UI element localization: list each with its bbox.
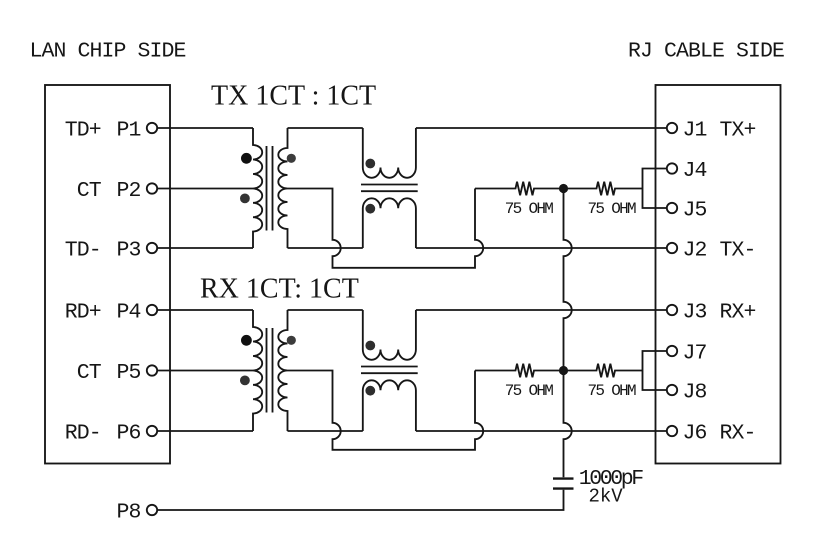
transformer T1 polarity dot secondary: [287, 154, 296, 163]
choke L2 top winding: [363, 310, 416, 360]
svg-text:TD-: TD-: [65, 238, 101, 262]
svg-text:CT: CT: [77, 179, 102, 203]
pin P6 (RD-): [65, 421, 157, 445]
wire choke L1 to J1: [416, 127, 667, 129]
svg-text:TD+: TD+: [65, 118, 101, 142]
svg-text:J3: J3: [683, 300, 707, 324]
svg-text:RD-: RD-: [65, 421, 101, 445]
wire T1 secondary bottom to choke L1: [288, 247, 363, 249]
svg-text:P8: P8: [116, 500, 140, 524]
transformer T1 secondary winding: [278, 128, 287, 248]
wire P1 to T1 primary: [157, 127, 253, 129]
svg-text:J4: J4: [683, 159, 707, 183]
resistor R2 label 75 OHM: [587, 200, 636, 218]
resistor R4 label 75 OHM: [587, 382, 636, 400]
pin J1 (TX+): [667, 118, 756, 142]
svg-text:P3: P3: [116, 238, 140, 262]
wire P4 to T2 primary: [157, 309, 253, 311]
transformer T1 core: [267, 146, 273, 231]
transformer T1 primary winding: [253, 128, 262, 248]
choke L2 core: [361, 367, 418, 374]
pin P3 (TD-): [65, 238, 157, 262]
pin P2 (CT): [77, 179, 157, 203]
resistor R3 label 75 OHM: [505, 382, 554, 400]
pin P1 (TD+): [65, 118, 157, 142]
pin P5 (CT): [77, 361, 157, 385]
wire bracket to J7/J8: [643, 351, 667, 390]
capacitor C1 plates: [553, 479, 574, 489]
svg-text:J1: J1: [683, 118, 707, 142]
wire T1 secondary top to choke L1: [288, 127, 363, 129]
choke L1 bottom winding: [363, 198, 416, 248]
svg-text:J7: J7: [683, 341, 707, 365]
wire P5 center tap to T2 primary: [157, 370, 253, 372]
pin J8: [667, 380, 707, 404]
transformer T2 primary winding: [253, 310, 262, 431]
pin J2 (TX-): [667, 238, 756, 262]
wire P3 to T1 primary: [157, 247, 253, 249]
capacitor C1 label 2kV: [589, 486, 624, 508]
wire choke L2 to J6: [416, 430, 667, 432]
choke L2 polarity dot top: [365, 341, 375, 351]
title RJ CABLE SIDE: [628, 39, 784, 63]
wire junction vertical to capacitor: [564, 189, 572, 478]
choke L1 polarity dot bottom: [365, 204, 375, 214]
svg-text:P4: P4: [116, 300, 140, 324]
label RX 1CT: 1CT: [200, 274, 359, 305]
svg-text:RD+: RD+: [65, 300, 101, 324]
svg-text:75 OHM: 75 OHM: [505, 382, 554, 400]
svg-text:75 OHM: 75 OHM: [587, 200, 636, 218]
transformer T2 secondary winding: [278, 310, 287, 431]
pin P4 (RD+): [65, 300, 157, 324]
wire T2 secondary top to choke L2: [288, 309, 363, 311]
choke L2 bottom winding: [363, 380, 416, 431]
transformer T2 polarity dot secondary: [287, 336, 296, 345]
wire choke L2 to J3: [416, 309, 667, 311]
transformer T1 polarity dot primary bottom: [240, 194, 250, 204]
transformer T1 polarity dot primary top: [241, 153, 252, 164]
svg-text:RJ CABLE SIDE: RJ CABLE SIDE: [628, 39, 784, 63]
pin P8: [116, 500, 157, 524]
pin J3 (RX+): [667, 300, 756, 324]
svg-text:J2: J2: [683, 238, 707, 262]
transformer T2 polarity dot primary bottom: [240, 376, 250, 386]
wire T1 secondary center tap return: [288, 189, 484, 268]
svg-text:TX-: TX-: [720, 238, 756, 262]
choke L1 top winding: [363, 128, 416, 178]
svg-text:J8: J8: [683, 380, 707, 404]
svg-text:LAN CHIP SIDE: LAN CHIP SIDE: [30, 39, 186, 63]
capacitor C1 label 1000pF: [579, 467, 644, 491]
choke L1 core: [361, 185, 418, 192]
resistor R4 75 OHM: [564, 364, 643, 378]
svg-text:2kV: 2kV: [589, 486, 624, 508]
transformer T2 core: [267, 328, 273, 413]
svg-text:75 OHM: 75 OHM: [505, 200, 554, 218]
pin J5: [667, 198, 707, 222]
svg-text:P5: P5: [116, 361, 140, 385]
wire choke L1 to J2: [416, 247, 667, 249]
wire T2 secondary bottom to choke L2: [288, 430, 363, 432]
svg-text:P6: P6: [116, 421, 140, 445]
svg-text:P2: P2: [116, 179, 140, 203]
junction node RX resistor center: [559, 366, 568, 375]
LAN chip side box: [45, 85, 170, 464]
resistor R1 label 75 OHM: [505, 200, 554, 218]
RJ cable side box: [656, 85, 781, 464]
wire P6 to T2 primary: [157, 430, 253, 432]
svg-text:J5: J5: [683, 198, 707, 222]
wire bracket to J4/J5: [643, 169, 667, 209]
wire T2 secondary center tap return: [288, 371, 484, 450]
resistor R2 75 OHM: [564, 182, 643, 196]
svg-text:CT: CT: [77, 361, 102, 385]
resistor R1 75 OHM: [475, 182, 564, 196]
svg-text:RX 1CT: 1CT: RX 1CT: 1CT: [200, 274, 359, 305]
choke L2 polarity dot bottom: [365, 386, 375, 396]
svg-text:75 OHM: 75 OHM: [587, 382, 636, 400]
wire P2 center tap to T1 primary: [157, 188, 253, 190]
pin J6 (RX-): [667, 421, 756, 445]
transformer T2 polarity dot primary top: [241, 335, 252, 346]
wire capacitor to P8: [157, 490, 563, 510]
svg-text:TX+: TX+: [720, 118, 756, 142]
svg-text:TX 1CT : 1CT: TX 1CT : 1CT: [211, 81, 376, 112]
pin J4: [667, 159, 707, 183]
junction node TX resistor center: [559, 184, 568, 193]
choke L1 polarity dot top: [365, 159, 375, 169]
title LAN CHIP SIDE: [30, 39, 186, 63]
svg-text:RX-: RX-: [720, 421, 756, 445]
resistor R3 75 OHM: [475, 364, 564, 378]
svg-text:RX+: RX+: [720, 300, 756, 324]
pin J7: [667, 341, 707, 365]
label TX 1CT : 1CT: [211, 81, 376, 112]
svg-text:J6: J6: [683, 421, 707, 445]
svg-text:P1: P1: [116, 118, 140, 142]
